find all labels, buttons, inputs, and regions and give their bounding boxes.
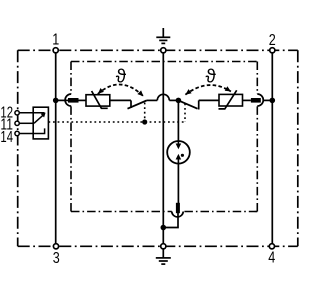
arrowhead at varistor right [225, 86, 231, 91]
arrowhead at disconnector left [137, 90, 143, 96]
earth symbol bottom [156, 249, 171, 264]
svg-text:1: 1 [52, 32, 59, 49]
wire: varistor to pin right [243, 99, 251, 101]
arrowhead at varistor left [98, 88, 104, 94]
gas discharge tube (spark gap) [167, 141, 190, 164]
wire: socket to right line [263, 99, 272, 101]
varistor MOV1 (left) [86, 95, 110, 106]
plug pin right (module contact) [251, 98, 261, 103]
node: junction dot left branch [53, 98, 59, 104]
node: junction dot right branch [270, 98, 276, 104]
changeover blade 11-12 [34, 114, 44, 123]
wire: terminal 14 with contact tick [19, 128, 44, 133]
terminal 1 [53, 48, 58, 53]
svg-text:4: 4 [268, 249, 275, 266]
terminal 12 [15, 111, 19, 115]
thermal linkage (dotted) from right disconnector [184, 103, 186, 122]
remote signalling contact box [33, 107, 48, 139]
thermal disconnector right: blade [178, 100, 197, 108]
thermal trip arc left (dashed) [98, 84, 144, 96]
terminal 4 [269, 244, 274, 249]
thermal trip arc right (dashed) [185, 85, 231, 95]
wire: terminal 12 [19, 112, 44, 114]
node: junction dot at GDT branch [176, 98, 182, 104]
wire: varistor to disconnector [110, 99, 131, 101]
thermal disconnector left: fixed contact tick [130, 100, 132, 108]
terminal 11 [15, 121, 19, 125]
svg-text:14: 14 [0, 129, 13, 146]
thermal disconnector right: fixed contact tick [198, 100, 200, 109]
terminal 14 [15, 131, 19, 135]
wire: center earth line [162, 50, 164, 246]
wire: pin to varistor [79, 99, 87, 101]
varistor MOV2 (right) [219, 94, 243, 106]
wire hop over center line [157, 94, 169, 100]
plug pin left (module contact) [68, 98, 79, 103]
svg-text:3: 3 [53, 250, 60, 267]
socket arc left (plug-in contact) [65, 94, 71, 106]
wire: terminal 11 [19, 122, 34, 124]
svg-text:ϑ: ϑ [116, 66, 127, 87]
wire: junction down to gas discharge tube [177, 103, 179, 141]
svg-text:ϑ: ϑ [206, 66, 217, 87]
plug pin bottom (module earth contact) [176, 203, 180, 213]
terminal 2 [270, 48, 275, 53]
socket arc right (plug-in contact) [257, 94, 263, 106]
wire: pin down and left to center line [163, 213, 178, 228]
thermal disconnector left: blade [128, 101, 147, 109]
outer enclosure border (dash-dot) [18, 50, 298, 246]
terminal earth top [161, 48, 166, 53]
wire: blade pivot to hop [147, 99, 158, 101]
wire: vertical line from terminal 1 to terminal 3 [55, 50, 57, 246]
earth symbol top [156, 28, 170, 43]
node: junction dot on earth line [161, 225, 167, 231]
wire: GDT down to bottom pin [177, 164, 179, 203]
svg-text:2: 2 [269, 32, 276, 49]
terminal 3 [53, 244, 58, 249]
socket arc bottom (plug-in contact) [172, 212, 183, 217]
wire: vertical line from terminal 2 to terminal 4 [271, 50, 273, 246]
thermal linkage (dotted) horizontal [48, 121, 185, 123]
thermal linkage (dotted) from left disconnector [144, 103, 146, 122]
terminal earth bottom [161, 244, 166, 249]
node: dot on linkage [142, 119, 147, 124]
protection module boundary (inner dash-dot rect) [71, 62, 257, 212]
wire: left branch to socket [56, 99, 68, 101]
arrowhead at disconnector right [185, 89, 191, 95]
wire: disconnector to varistor right [199, 99, 219, 101]
wire: hop to center junction [169, 99, 178, 101]
